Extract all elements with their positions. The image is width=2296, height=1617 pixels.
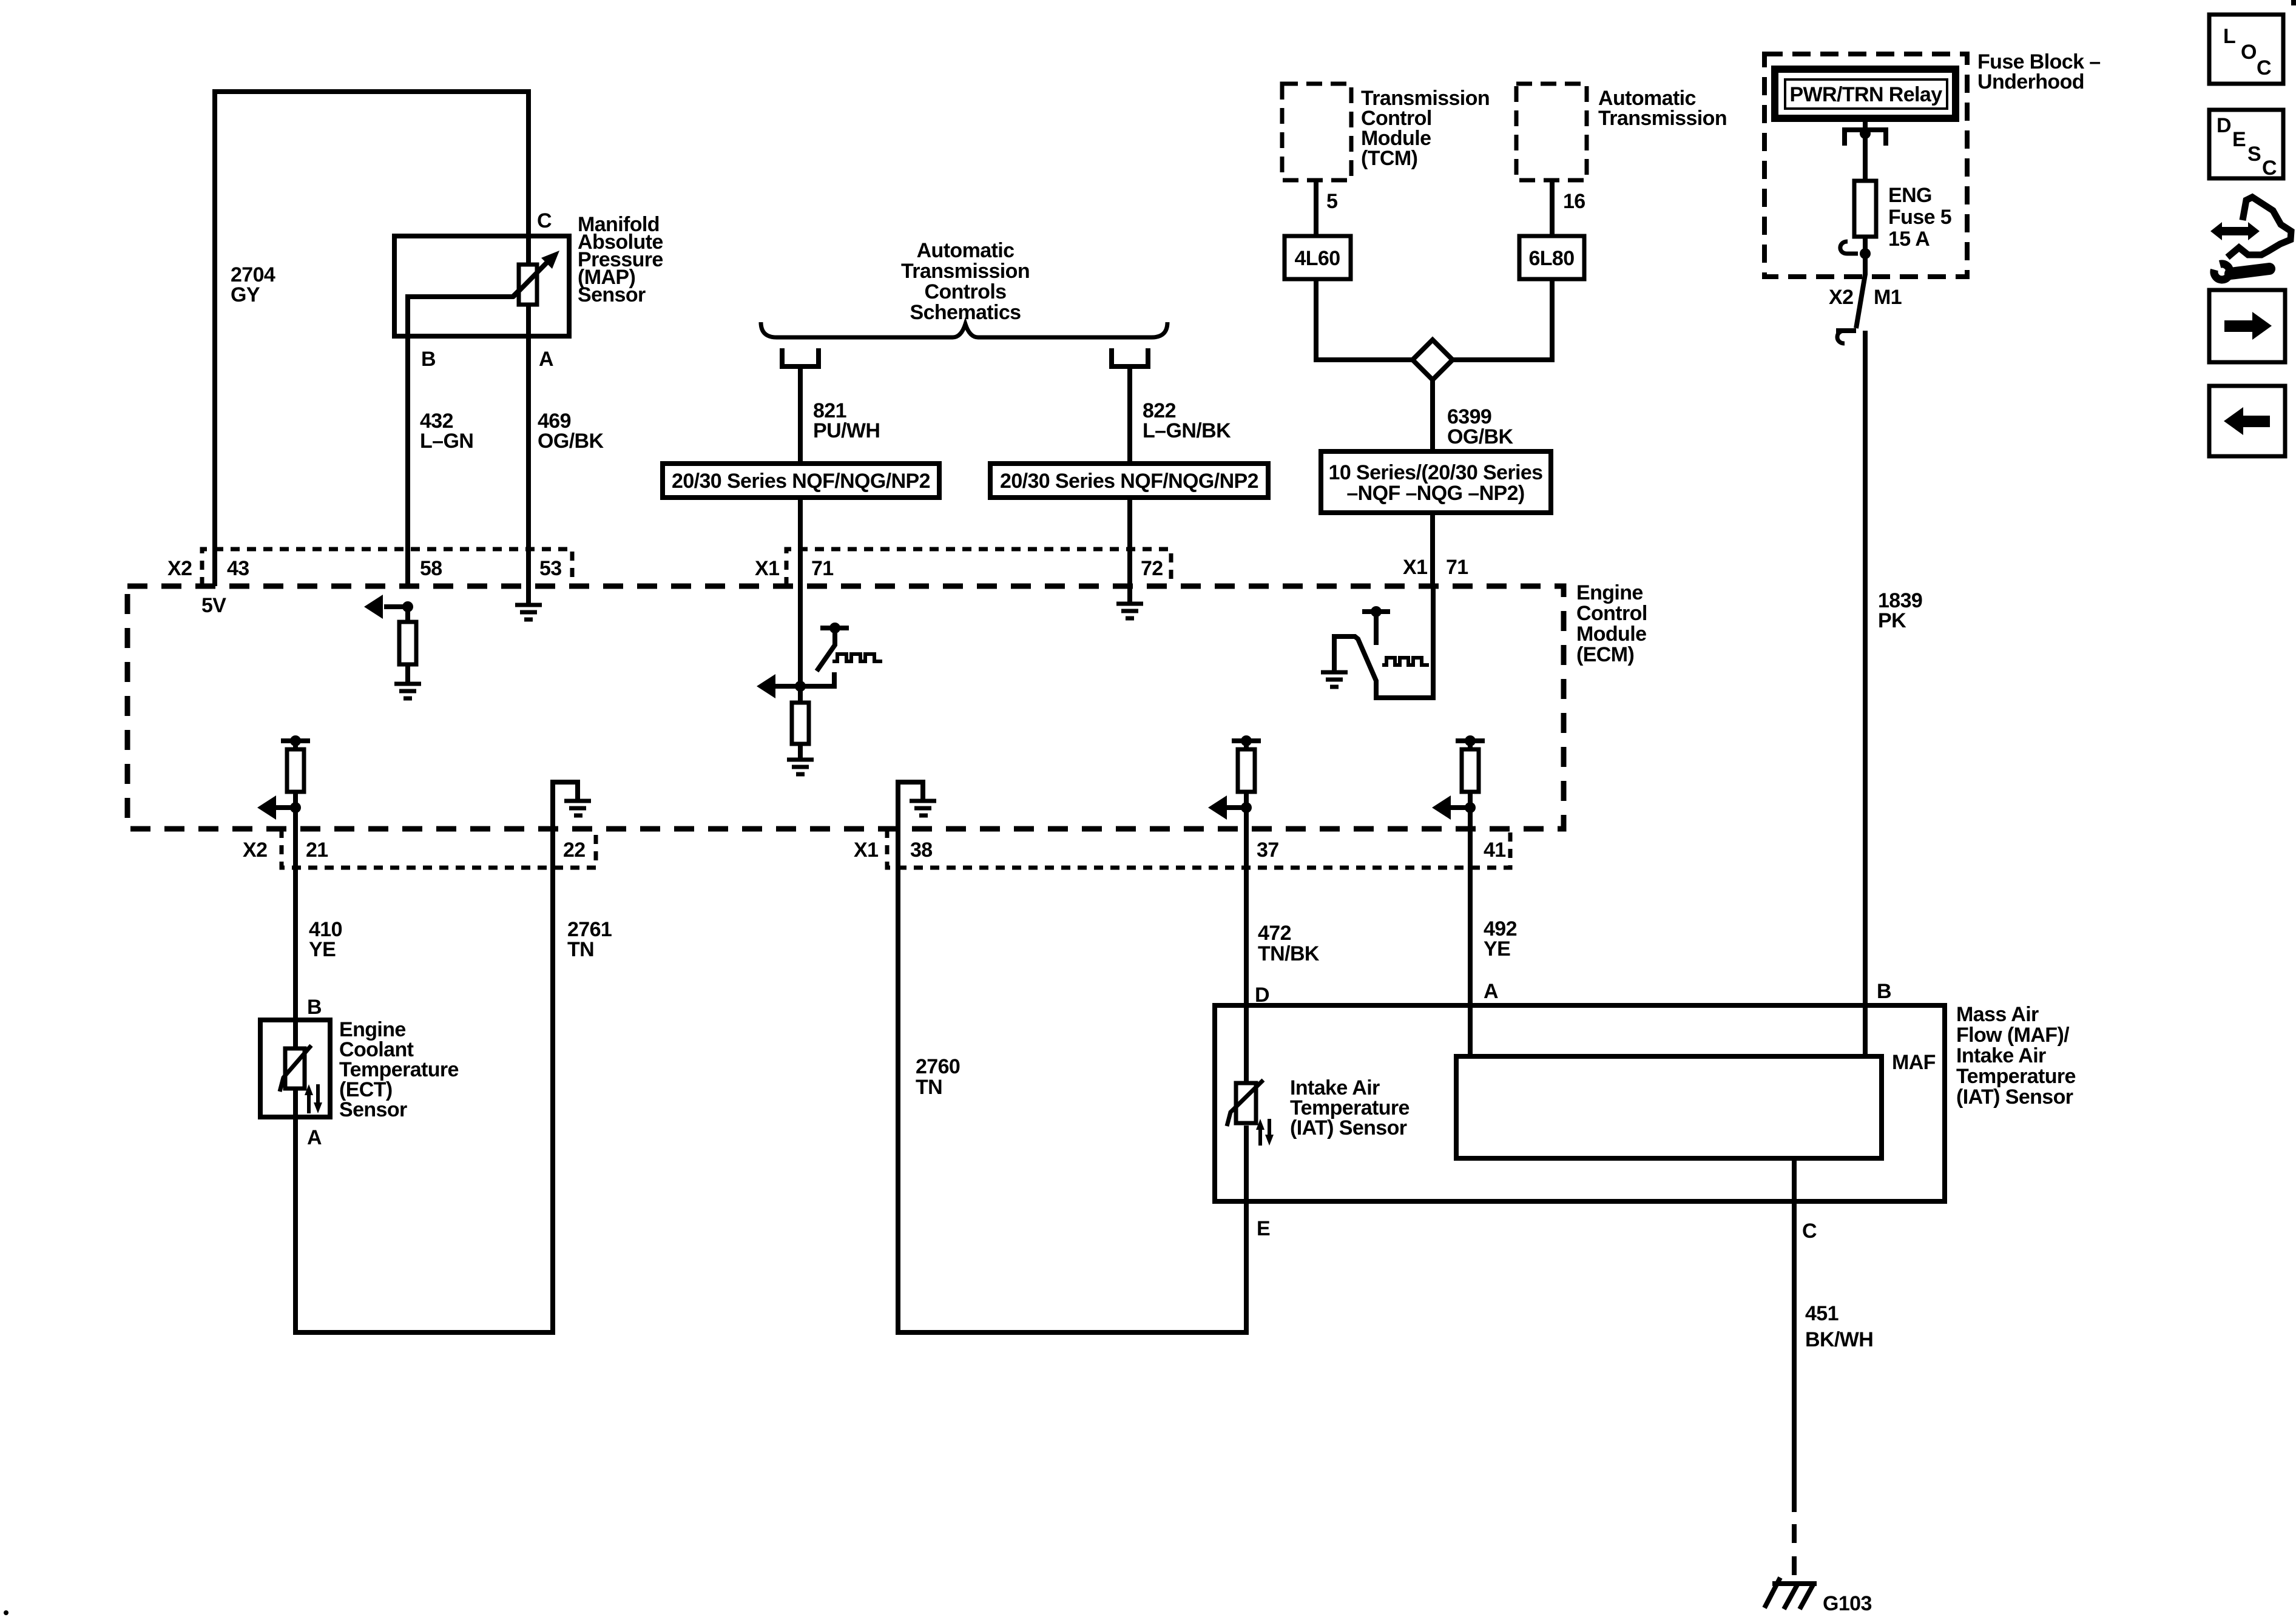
svg-text:PWR/TRN Relay: PWR/TRN Relay: [1789, 83, 1942, 106]
svg-text:(TCM): (TCM): [1361, 147, 1417, 170]
svg-text:BK/WH: BK/WH: [1805, 1328, 1873, 1351]
svg-text:10 Series/(20/30 Series: 10 Series/(20/30 Series: [1329, 461, 1543, 484]
svg-text:16: 16: [1563, 190, 1585, 213]
svg-text:MAF: MAF: [1892, 1051, 1936, 1074]
svg-text:OG/BK: OG/BK: [538, 430, 604, 453]
svg-text:Temperature: Temperature: [1956, 1065, 2076, 1088]
svg-text:Sensor: Sensor: [339, 1098, 407, 1121]
svg-text:C: C: [2257, 56, 2271, 79]
svg-text:L–GN: L–GN: [420, 430, 473, 453]
svg-text:L–GN/BK: L–GN/BK: [1143, 419, 1231, 442]
svg-text:PK: PK: [1878, 609, 1906, 632]
svg-text:20/30 Series NQF/NQG/NP2: 20/30 Series NQF/NQG/NP2: [672, 470, 930, 493]
svg-text:X1: X1: [1403, 556, 1427, 579]
svg-text:PU/WH: PU/WH: [813, 419, 880, 442]
svg-text:15 A: 15 A: [1888, 228, 1930, 251]
svg-text:GY: GY: [231, 283, 260, 306]
svg-text:C: C: [1802, 1220, 1817, 1243]
svg-text:Underhood: Underhood: [1977, 70, 2084, 93]
svg-text:D: D: [2217, 114, 2231, 137]
svg-text:L: L: [2223, 25, 2235, 48]
svg-text:Sensor: Sensor: [578, 283, 646, 306]
svg-text:21: 21: [306, 839, 328, 862]
svg-text:Flow (MAF)/: Flow (MAF)/: [1956, 1024, 2070, 1047]
svg-text:Engine: Engine: [1576, 581, 1643, 604]
svg-text:472: 472: [1258, 922, 1291, 945]
svg-text:41: 41: [1484, 839, 1506, 862]
svg-text:D: D: [1255, 984, 1269, 1007]
svg-text:Automatic: Automatic: [917, 239, 1015, 262]
svg-text:TN: TN: [567, 938, 594, 961]
svg-text:X1: X1: [854, 839, 878, 862]
svg-text:X2: X2: [243, 839, 267, 862]
svg-text:2760: 2760: [916, 1055, 960, 1078]
svg-text:X2: X2: [1829, 286, 1853, 309]
svg-text:38: 38: [910, 839, 933, 862]
svg-text:53: 53: [539, 557, 562, 580]
svg-text:OG/BK: OG/BK: [1447, 425, 1513, 448]
svg-text:5V: 5V: [201, 594, 226, 617]
svg-text:(ECM): (ECM): [1576, 643, 1634, 666]
svg-text:Intake Air: Intake Air: [1956, 1044, 2046, 1067]
svg-text:A: A: [539, 348, 553, 371]
svg-text:22: 22: [563, 839, 586, 862]
svg-text:Fuse 5: Fuse 5: [1888, 206, 1951, 229]
svg-text:5: 5: [1326, 190, 1337, 213]
svg-text:37: 37: [1257, 839, 1279, 862]
svg-text:ENG: ENG: [1888, 184, 1932, 207]
svg-text:Controls: Controls: [925, 280, 1007, 303]
svg-text:E: E: [1257, 1217, 1270, 1240]
svg-text:(IAT) Sensor: (IAT) Sensor: [1956, 1085, 2073, 1109]
svg-text:S: S: [2247, 143, 2261, 166]
svg-text:Mass Air: Mass Air: [1956, 1003, 2039, 1026]
svg-text:6L80: 6L80: [1528, 247, 1574, 270]
svg-text:YE: YE: [309, 938, 336, 961]
svg-text:Control: Control: [1576, 602, 1647, 625]
svg-text:Schematics: Schematics: [910, 301, 1021, 324]
svg-text:B: B: [307, 996, 322, 1019]
svg-text:B: B: [421, 348, 436, 371]
svg-text:451: 451: [1805, 1302, 1838, 1325]
svg-text:58: 58: [420, 557, 442, 580]
svg-text:Module: Module: [1576, 623, 1646, 646]
svg-text:TN: TN: [916, 1076, 942, 1099]
svg-text:M1: M1: [1874, 286, 1902, 309]
svg-text:YE: YE: [1484, 937, 1510, 960]
svg-text:E: E: [2232, 128, 2246, 151]
svg-text:TN/BK: TN/BK: [1258, 942, 1320, 965]
svg-text:71: 71: [1446, 556, 1468, 579]
svg-text:Transmission: Transmission: [1598, 107, 1727, 130]
svg-text:4L60: 4L60: [1294, 247, 1340, 270]
svg-text:43: 43: [227, 557, 249, 580]
svg-text:O: O: [2241, 41, 2257, 64]
svg-text:–NQF –NQG –NP2): –NQF –NQG –NP2): [1346, 482, 1524, 505]
svg-text:72: 72: [1141, 557, 1163, 580]
svg-text:A: A: [1484, 980, 1498, 1003]
svg-text:X2: X2: [167, 557, 192, 580]
svg-text:B: B: [1877, 980, 1891, 1003]
svg-text:G103: G103: [1823, 1592, 1872, 1615]
svg-text:71: 71: [811, 557, 834, 580]
svg-text:Transmission: Transmission: [901, 260, 1030, 283]
svg-text:20/30 Series NQF/NQG/NP2: 20/30 Series NQF/NQG/NP2: [1000, 470, 1258, 493]
svg-text:C: C: [537, 209, 552, 232]
svg-text:C: C: [2262, 157, 2277, 180]
svg-text:(IAT) Sensor: (IAT) Sensor: [1290, 1116, 1407, 1139]
svg-text:A: A: [307, 1126, 322, 1149]
svg-text:X1: X1: [755, 557, 779, 580]
